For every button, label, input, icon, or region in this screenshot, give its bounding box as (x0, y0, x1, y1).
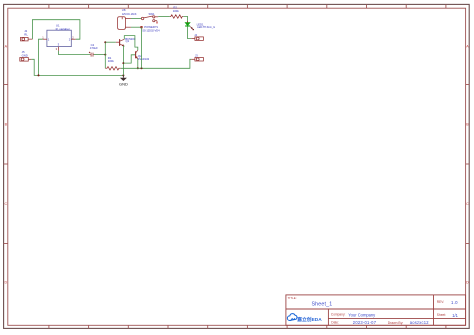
svg-text:LED-TH 3mm_G: LED-TH 3mm_G (197, 26, 215, 29)
wire switch to R2 (158, 16, 170, 18)
svg-text:1.0: 1.0 (451, 300, 458, 305)
switch POWER1 (141, 16, 158, 23)
svg-text:嘉立创EDA: 嘉立创EDA (296, 316, 322, 323)
frame row letters left (4, 45, 7, 285)
svg-text:aoszxc12: aoszxc12 (410, 320, 429, 325)
frame ticks right (466, 85, 470, 244)
frame row letters right (466, 45, 469, 285)
wire top loop (J2 to U1 pin2) (32, 20, 80, 40)
svg-text:U8: U8 (122, 8, 126, 12)
wire U1 pin1 down to ground rail (39, 39, 43, 75)
wire Q1 emitter down (122, 46, 125, 75)
wire Q2 base jog (123, 55, 135, 63)
svg-text:SS-12D02-VD4: SS-12D02-VD4 (142, 29, 160, 33)
connector J2 labels (24, 29, 28, 37)
wire supply vertical (141, 27, 143, 68)
svg-text:12V DC JACK: 12V DC JACK (122, 13, 137, 16)
connector J4 (191, 37, 203, 41)
svg-text:2023-01-07: 2023-01-07 (353, 320, 377, 325)
frame ticks bottom (49, 325, 446, 328)
frame ticks top (49, 4, 446, 8)
svg-text:100k: 100k (108, 59, 115, 63)
U1 pin numbers (42, 36, 74, 52)
svg-text:Your Company: Your Company (348, 312, 376, 317)
junction dot ground rail / pin1 (38, 74, 40, 76)
svg-text:SW1: SW1 (149, 12, 156, 16)
svg-text:1/1: 1/1 (452, 313, 458, 318)
junction dot Q2 collector (137, 67, 139, 69)
svg-text:GND: GND (119, 81, 128, 86)
transistor Q2 (136, 50, 138, 59)
wire Q2 collector down (137, 59, 139, 68)
wire node vertical (Q1 base / C2 / R1) (104, 42, 106, 68)
svg-text:100k: 100k (173, 9, 180, 13)
connector J3 (191, 58, 203, 62)
svg-text:REV:: REV: (437, 300, 444, 304)
junction dot rail / supply vertical (141, 67, 143, 69)
dc jack U8 (118, 17, 131, 30)
svg-text:GND: GND (22, 54, 28, 58)
svg-text:Company:: Company: (331, 313, 346, 317)
svg-text:R_variabel: R_variabel (56, 27, 70, 31)
svg-text:TITLE:: TITLE: (288, 296, 297, 300)
junction dot Q1 base node (104, 41, 106, 43)
title block outline (286, 295, 466, 325)
connector J5 GND input (20, 58, 32, 62)
svg-text:C: C (466, 202, 469, 206)
svg-text:2SA1943: 2SA1943 (138, 57, 150, 61)
svg-text:Date:: Date: (331, 321, 339, 325)
wire node to Q1 base (105, 41, 116, 43)
logo cloud icon (287, 314, 297, 321)
svg-text:470uF: 470uF (90, 46, 98, 50)
svg-text:POWER?1: POWER?1 (144, 25, 158, 29)
svg-text:Q1: Q1 (126, 39, 130, 43)
svg-text:RL: RL (24, 33, 28, 37)
wire R2 to LED (183, 17, 187, 23)
svg-text:C: C (4, 202, 7, 206)
junction dot C2 node (104, 54, 106, 56)
svg-text:D: D (4, 281, 7, 285)
frame ticks left (4, 85, 8, 244)
wire Q1 collector to Q2 emitter (124, 36, 138, 51)
potentiometer U1 (47, 30, 71, 46)
wire jack pin1 to switch (131, 18, 141, 20)
resistor R1 (105, 67, 121, 70)
LED LED1 (185, 21, 194, 30)
svg-text:Sheet:: Sheet: (437, 313, 446, 317)
svg-text:D: D (466, 281, 469, 285)
resistor R2 (170, 15, 183, 18)
svg-text:Sheet_1: Sheet_1 (312, 301, 333, 307)
junction dot ground rail end (122, 74, 124, 76)
junction square jack return (140, 26, 142, 28)
connector J5 labels (22, 50, 28, 57)
wire U1 pin3 to C2 (59, 51, 91, 55)
wire LED cathode to J4 (188, 26, 192, 38)
wire C2 to node (94, 54, 106, 56)
switch open pin dot (156, 22, 157, 23)
ground symbol (119, 75, 128, 86)
wire jack pin2 to rail (131, 26, 142, 28)
capacitor C2 (89, 52, 94, 57)
U1 pin names (48, 37, 71, 46)
junction dot Q2 base node (122, 62, 124, 64)
connector J2 (21, 37, 33, 41)
svg-text:Drawn By:: Drawn By: (388, 321, 404, 325)
wire output rail to J3 (121, 59, 192, 68)
wire J5 to ground rail (31, 59, 123, 75)
transistor Q1 (116, 39, 124, 46)
